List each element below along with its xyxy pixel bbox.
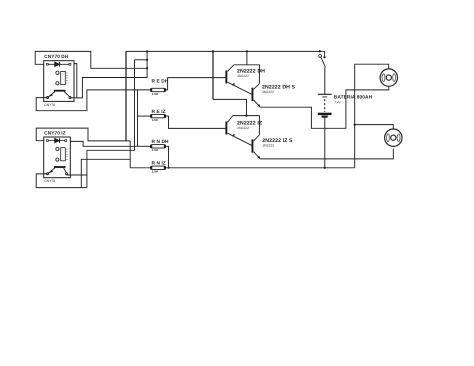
svg-text:1.5K: 1.5K: [152, 118, 159, 122]
wire: IZ photo-collector riser to v2 and up to rail link: [87, 60, 135, 188]
resistor R N DH: [151, 139, 169, 152]
wire: CNY70 IZ cathode route to R N DH lead: [70, 141, 137, 146]
CNY70 DH internal sensor block: [56, 71, 68, 85]
svg-text:R E DH: R E DH: [152, 79, 169, 85]
svg-text:2N2222: 2N2222: [237, 126, 249, 130]
wire: Q4 emitter route to motor IZ: [260, 149, 393, 159]
wire: CNY70 IZ anode route: [36, 128, 130, 141]
node: v3 y59.8: [146, 59, 148, 61]
wire: battery bottom down to ground line: [324, 116, 326, 168]
wire: R E IZ to Q3 base: [164, 116, 226, 128]
wire: Q2 emitter route to motor DH: [260, 86, 389, 128]
junction dots: [146, 50, 356, 169]
resistor R E DH: [151, 79, 169, 96]
node: rail end at switch: [319, 50, 321, 52]
wire: ground line R N IZ to battery minus and motor common: [164, 167, 354, 169]
motor M1 (DH): [380, 69, 397, 86]
svg-text:1.5K: 1.5K: [152, 170, 159, 174]
optocoupler U2 CNY70 IZ: [44, 131, 71, 184]
battery BT1 BATERIA 800AH: [318, 94, 373, 116]
svg-text:CNY70: CNY70: [44, 179, 55, 183]
node: battery minus / ground: [324, 167, 326, 169]
transistor Q4 2N2222 IZ S: [252, 135, 293, 159]
wire: v4 common vertical feeding R E IZ and R N DH: [137, 90, 139, 146]
wire: top supply rail: [126, 50, 320, 52]
svg-text:1.5K: 1.5K: [152, 148, 159, 152]
wire: rail tap to DH collector group: [246, 51, 248, 64]
wire: IZ collector rail: [233, 116, 260, 135]
svg-text:CNY70 IZ: CNY70 IZ: [44, 131, 65, 136]
node: IZ collector rail tap: [245, 115, 247, 117]
wire: rail tap to IZ collector group: [212, 51, 214, 99]
svg-text:7.4V: 7.4V: [334, 100, 341, 104]
svg-text:CNY70 DH: CNY70 DH: [44, 54, 68, 59]
wire: common node to motor IZ top: [355, 125, 394, 129]
CNY70 IZ internal sensor block: [56, 147, 68, 161]
CNY70 DH body box: [44, 61, 74, 102]
svg-text:R E IZ: R E IZ: [152, 109, 166, 115]
wire: motor DH top to common node: [355, 64, 389, 168]
CNY70 IZ body box: [44, 137, 71, 178]
resistor R E IZ: [151, 109, 166, 122]
wire: R N DH left lead: [138, 145, 152, 147]
wire: vertical link rail to anode route: [146, 51, 148, 78]
svg-text:R N IZ: R N IZ: [152, 160, 166, 166]
wire: switch to battery top: [324, 67, 326, 94]
node: R N DH at ground line: [168, 167, 170, 169]
transistor Q1 2N2222 DH: [225, 65, 265, 94]
CNY70 IZ internal LED D: [46, 138, 66, 143]
optocoupler U1 CNY70 DH: [44, 54, 74, 107]
svg-text:CNY70: CNY70: [44, 103, 55, 107]
wire: IZ collector feed: [213, 99, 247, 115]
svg-text:1.5K: 1.5K: [152, 92, 159, 96]
wire: CNY70 IZ photo-emitter route: [36, 174, 87, 188]
transistor Q3 2N2222 IZ: [225, 116, 262, 146]
node: rail / IZ feed: [212, 50, 214, 52]
wire: R E DH to Q1 base: [164, 78, 226, 90]
node: rail / DH feed: [246, 50, 248, 52]
wire: CNY70 IZ photo-collector stub: [67, 174, 87, 176]
wire: CNY70 DH anode route (around left of box): [35, 51, 147, 68]
wire: v7 anode line down to R N IZ lead: [129, 141, 131, 168]
wire: R N DH down to ground line: [164, 146, 168, 168]
wire: CNY70 DH photo-collector stub: [70, 97, 77, 99]
switch S1: [319, 51, 326, 67]
CNY70 IZ internal phototransistor: [47, 167, 68, 175]
wire: DH collector rail: [234, 65, 260, 84]
wire: riser x81.3 to mid link: [81, 159, 130, 187]
svg-text:2N2222: 2N2222: [237, 74, 249, 78]
CNY70 DH internal phototransistor: [47, 91, 72, 99]
wire: R E IZ left lead: [138, 115, 152, 117]
wire: CNY70 DH cathode route: [74, 64, 147, 98]
svg-text:2N2222: 2N2222: [263, 143, 275, 147]
node: motor common: [354, 124, 356, 126]
CNY70 DH internal LED D: [46, 62, 71, 67]
node: rail / v3: [146, 50, 148, 52]
svg-text:2N2222: 2N2222: [262, 90, 274, 94]
motor M2 (IZ): [385, 129, 402, 146]
node: v3 y68.3: [146, 67, 148, 69]
wire: vertical v1 rail to IZ anode line: [125, 51, 127, 141]
resistor R N IZ: [151, 160, 166, 173]
wire: R N IZ left lead: [130, 167, 152, 169]
wire: CNY70 DH photo-emitter route to R E DH: [36, 90, 152, 111]
wire: link stub y59.8: [135, 59, 148, 61]
transistor Q2 2N2222 DH S: [252, 84, 296, 108]
